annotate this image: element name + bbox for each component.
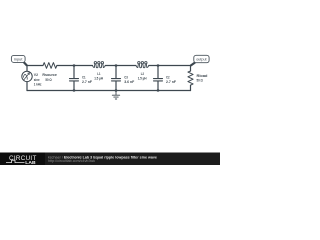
resistor Rload bbox=[188, 71, 193, 85]
node junction dot top C1 bbox=[73, 64, 75, 66]
junction dot bottom C3 ground bbox=[115, 89, 117, 91]
wire source bottom bbox=[26, 81, 28, 90]
wire top rail right segment bbox=[149, 66, 191, 72]
svg-text:2.7 nF: 2.7 nF bbox=[166, 79, 176, 84]
capacitor C2 bbox=[154, 66, 163, 91]
junction dot bottom C1 bbox=[73, 89, 75, 91]
node junction dot top C3 bbox=[115, 64, 117, 66]
ground bbox=[112, 91, 119, 100]
capacitor C1 bbox=[70, 66, 79, 91]
svg-text:1 kHz: 1 kHz bbox=[34, 81, 42, 86]
wire top rail between L1 and L2 bbox=[105, 65, 136, 67]
footer bar bbox=[0, 153, 220, 166]
wire top rail between Rsource and L1 bbox=[57, 65, 93, 67]
svg-text:2.7 nF: 2.7 nF bbox=[82, 79, 92, 84]
wire top rail left segment bbox=[27, 65, 43, 67]
junction dot bottom C2 bbox=[157, 89, 159, 91]
svg-text:input: input bbox=[14, 57, 23, 61]
svg-text:output: output bbox=[196, 58, 207, 62]
svg-text:LAB: LAB bbox=[25, 160, 36, 165]
resistor Rsource bbox=[43, 63, 57, 69]
svg-text:50 Ω: 50 Ω bbox=[45, 77, 52, 82]
logo waveform bbox=[6, 160, 25, 162]
svg-text:1.5 µH: 1.5 µH bbox=[94, 75, 103, 80]
footer logo block bbox=[0, 153, 45, 166]
input flag bbox=[11, 55, 27, 65]
svg-text:50 Ω: 50 Ω bbox=[197, 78, 204, 83]
output flag bbox=[191, 55, 210, 65]
svg-text:1.5 µH: 1.5 µH bbox=[138, 75, 147, 80]
wire bottom rail bbox=[27, 90, 191, 92]
wire source top bbox=[26, 66, 28, 72]
node junction dot top C2 bbox=[157, 64, 159, 66]
wire Rload bottom bbox=[190, 85, 192, 90]
inductor L1 bbox=[93, 62, 106, 68]
capacitor C3 bbox=[112, 66, 121, 91]
svg-text:3.6 nF: 3.6 nF bbox=[124, 79, 134, 84]
voltage source V2 bbox=[22, 71, 32, 81]
svg-text:http://circuitlab.com/c4vb3wk: http://circuitlab.com/c4vb3wk bbox=[48, 159, 95, 163]
inductor L2 bbox=[136, 62, 149, 68]
